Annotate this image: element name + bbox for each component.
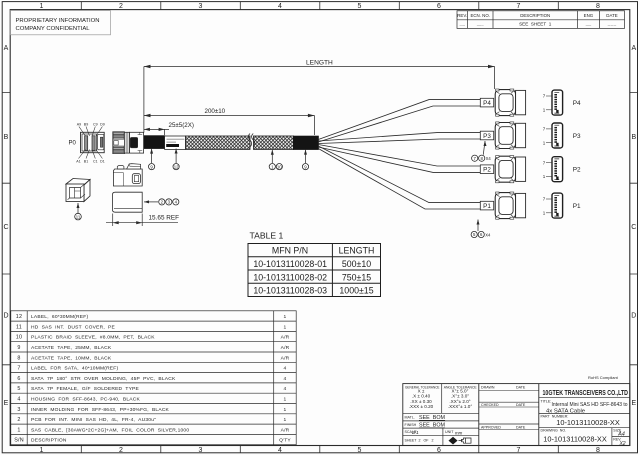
svg-text:SEE BOM: SEE BOM <box>419 423 446 429</box>
svg-text:.XXX ± 0.20: .XXX ± 0.20 <box>409 404 434 409</box>
svg-text:.XX°± 2.0°: .XX°± 2.0° <box>449 399 470 404</box>
svg-text:TABLE 1: TABLE 1 <box>250 231 284 241</box>
svg-text:7: 7 <box>17 366 20 372</box>
svg-text:DRAWN: DRAWN <box>481 385 495 389</box>
svg-text:P3: P3 <box>483 133 491 140</box>
svg-text:.X°± 3.0°: .X°± 3.0° <box>451 394 469 399</box>
svg-text:15.65 REF: 15.65 REF <box>149 215 180 222</box>
svg-text:REV.: REV. <box>457 13 467 18</box>
svg-text:200±10: 200±10 <box>205 108 226 115</box>
svg-text:--.--: --.-- <box>459 23 464 27</box>
svg-text:B: B <box>631 134 636 141</box>
svg-text:DESCRIPTION: DESCRIPTION <box>31 438 67 444</box>
svg-text:5: 5 <box>358 3 362 10</box>
svg-text:5: 5 <box>358 447 362 454</box>
svg-text:X4: X4 <box>485 233 491 238</box>
svg-text:5: 5 <box>17 386 20 392</box>
svg-text:X4: X4 <box>486 156 492 161</box>
svg-text:A/R: A/R <box>281 427 290 433</box>
svg-text:3: 3 <box>199 447 203 454</box>
svg-text:LENGTH: LENGTH <box>306 60 333 67</box>
svg-text:P1: P1 <box>483 203 491 210</box>
svg-text:10-1013110028-XX: 10-1013110028-XX <box>543 435 607 444</box>
svg-text:DATE: DATE <box>516 403 526 407</box>
svg-text:2: 2 <box>17 417 20 423</box>
svg-text:D: D <box>3 313 8 320</box>
svg-text:3: 3 <box>199 3 203 10</box>
svg-text:P4: P4 <box>483 100 491 107</box>
svg-text:CHECKED: CHECKED <box>481 403 499 407</box>
svg-text:INNER MOLDING FOR SFF-8643,: INNER MOLDING FOR SFF-8643, PP+30%FG, BL… <box>31 407 170 413</box>
svg-text:P4: P4 <box>573 100 581 107</box>
svg-text:PCB FOR INT. MINI SAS HD,: PCB FOR INT. MINI SAS HD, 4L, FR-4, AU30… <box>31 417 156 423</box>
svg-text:A: A <box>631 45 636 52</box>
svg-text:E: E <box>631 400 636 407</box>
svg-text:6: 6 <box>17 376 20 382</box>
svg-text:ACETATE TAPE, 10MM, BLACK: ACETATE TAPE, 10MM, BLACK <box>31 355 112 361</box>
svg-text:3: 3 <box>17 407 20 413</box>
svg-text:P2: P2 <box>573 167 581 174</box>
svg-text:SATA 7P FEMALE, G/F SOLDER: SATA 7P FEMALE, G/F SOLDERED TYPE <box>31 386 140 392</box>
svg-text:P2: P2 <box>483 167 491 174</box>
svg-text:LABEL, 60*30MM(REF): LABEL, 60*30MM(REF) <box>31 314 88 320</box>
svg-text:E: E <box>4 400 9 407</box>
svg-text:500±10: 500±10 <box>342 259 371 269</box>
svg-text:4: 4 <box>278 447 282 454</box>
svg-text:11: 11 <box>16 324 22 330</box>
svg-text:10-1013110028-03: 10-1013110028-03 <box>253 286 327 296</box>
svg-text:1: 1 <box>40 3 44 10</box>
svg-text:COMPANY CONFIDENTIAL: COMPANY CONFIDENTIAL <box>16 26 91 32</box>
svg-text:DATE: DATE <box>516 385 526 389</box>
svg-text:10-1013110028-01: 10-1013110028-01 <box>253 259 327 269</box>
svg-text:S/N: S/N <box>14 438 24 444</box>
svg-text:1: 1 <box>284 417 287 423</box>
svg-text:SHEET 2 OF 2: SHEET 2 OF 2 <box>405 439 434 443</box>
svg-text:RoHS Compliant: RoHS Compliant <box>588 375 619 380</box>
svg-text:4: 4 <box>17 397 20 403</box>
svg-text:-----: ----- <box>586 23 592 27</box>
svg-text:mm: mm <box>455 430 463 435</box>
svg-text:C9: C9 <box>93 123 98 127</box>
svg-text:APPROVED: APPROVED <box>481 425 501 429</box>
svg-text:--.--.--: --.--.-- <box>608 23 617 27</box>
svg-text:SATA 7P 180° STR OVER MOL: SATA 7P 180° STR OVER MOLDING, 45P PVC, … <box>31 376 176 382</box>
svg-text:7: 7 <box>517 447 521 454</box>
svg-text:B1: B1 <box>84 160 88 164</box>
svg-text:1: 1 <box>17 427 20 433</box>
svg-text:PROPRIETARY INFORMATION: PROPRIETARY INFORMATION <box>16 18 100 24</box>
svg-text:A9: A9 <box>77 123 81 127</box>
svg-text:9: 9 <box>17 345 20 351</box>
svg-text:8: 8 <box>596 3 600 10</box>
svg-text:750±15: 750±15 <box>342 272 371 282</box>
svg-text:10-1013110028-02: 10-1013110028-02 <box>253 272 327 282</box>
svg-text:8: 8 <box>596 447 600 454</box>
svg-text:11: 11 <box>76 214 81 219</box>
svg-text:4: 4 <box>278 3 282 10</box>
svg-text:A4: A4 <box>617 431 625 437</box>
svg-text:SEE BOM: SEE BOM <box>419 415 446 421</box>
svg-text:ACETATE TAPE, 25MM, BLACK: ACETATE TAPE, 25MM, BLACK <box>31 345 112 351</box>
svg-text:FINISH: FINISH <box>405 423 417 427</box>
svg-text:7: 7 <box>517 3 521 10</box>
svg-text:------: ------ <box>477 23 484 27</box>
svg-text:B: B <box>4 134 9 141</box>
svg-text:TITLE:: TITLE: <box>541 399 552 403</box>
svg-text:ENG: ENG <box>584 13 594 18</box>
svg-text:D1: D1 <box>100 160 105 164</box>
svg-text:SEE SHEET 1: SEE SHEET 1 <box>519 22 552 27</box>
svg-text:P3: P3 <box>573 133 581 140</box>
svg-text:D: D <box>631 313 636 320</box>
svg-text:HOUSING FOR SFF-8643, PC-94: HOUSING FOR SFF-8643, PC-940, BLACK <box>31 397 140 403</box>
svg-text:1: 1 <box>284 407 287 413</box>
svg-text:2: 2 <box>119 3 123 10</box>
svg-text:10: 10 <box>277 164 282 169</box>
svg-text:4: 4 <box>284 366 287 372</box>
svg-text:Internal Mini SAS HD SFF-8643: Internal Mini SAS HD SFF-8643 to <box>552 402 629 408</box>
svg-text:1: 1 <box>284 314 287 320</box>
svg-text:4: 4 <box>284 376 287 382</box>
svg-text:1000±15: 1000±15 <box>339 286 373 296</box>
svg-text:6: 6 <box>437 3 441 10</box>
svg-text:UNIT: UNIT <box>445 430 454 434</box>
svg-text:1: 1 <box>284 397 287 403</box>
svg-text:10-1013110028-XX: 10-1013110028-XX <box>556 418 620 427</box>
svg-text:ECN. NO.: ECN. NO. <box>470 13 490 18</box>
svg-text:LENGTH: LENGTH <box>339 246 375 256</box>
svg-text:D9: D9 <box>100 123 105 127</box>
svg-text:10GTEK TRANSCEIVERS CO.,LTD: 10GTEK TRANSCEIVERS CO.,LTD <box>543 388 629 397</box>
svg-text:C: C <box>631 224 636 231</box>
svg-text:2: 2 <box>119 447 123 454</box>
svg-text:DATE: DATE <box>516 425 526 429</box>
svg-text:.XXX°± 1.0°: .XXX°± 1.0° <box>448 404 472 409</box>
svg-text:MFN P/N: MFN P/N <box>272 246 308 256</box>
svg-text:8: 8 <box>17 355 20 361</box>
svg-text:MATL.: MATL. <box>405 415 415 419</box>
svg-text:C: C <box>3 224 8 231</box>
svg-text:P1: P1 <box>573 203 581 210</box>
svg-text:DESCRIPTION: DESCRIPTION <box>520 13 550 18</box>
svg-text:A/R: A/R <box>281 335 290 341</box>
svg-text:DATE: DATE <box>606 13 617 18</box>
svg-text:.X ± 0.40: .X ± 0.40 <box>412 394 431 399</box>
svg-text:X2: X2 <box>618 441 625 447</box>
svg-text:LABEL FOR SATA, 40*10MM(REF: LABEL FOR SATA, 40*10MM(REF) <box>31 366 118 372</box>
svg-text:Q'TY: Q'TY <box>279 438 291 444</box>
svg-text:12: 12 <box>174 164 179 169</box>
svg-text:B9: B9 <box>84 123 88 127</box>
svg-text:1: 1 <box>284 324 287 330</box>
svg-text:12: 12 <box>16 314 22 320</box>
svg-text:25±5(2X): 25±5(2X) <box>169 122 194 129</box>
svg-text:4x SATA Cable: 4x SATA Cable <box>546 409 586 415</box>
svg-text:P0: P0 <box>69 141 77 147</box>
svg-text:.XX ± 0.30: .XX ± 0.30 <box>410 399 432 404</box>
svg-text:6: 6 <box>437 447 441 454</box>
svg-text:2/1: 2/1 <box>411 430 419 436</box>
svg-text:HD SAS INT. DUST COVER, P: HD SAS INT. DUST COVER, PE <box>31 324 115 330</box>
svg-text:DRAWING NO.: DRAWING NO. <box>541 429 567 433</box>
svg-text:SAS CABLE, [30AWG*2C+2G]+AM,: SAS CABLE, [30AWG*2C+2G]+AM, FOIL COLOR … <box>31 427 189 433</box>
svg-text:A1: A1 <box>76 160 80 164</box>
svg-text:4: 4 <box>284 386 287 392</box>
svg-text:PLASTIC BRAID SLEEVE, #8.0M: PLASTIC BRAID SLEEVE, #8.0MM, PET, BLACK <box>31 335 155 341</box>
svg-text:A/R: A/R <box>281 355 290 361</box>
svg-text:A: A <box>4 45 9 52</box>
svg-text:10: 10 <box>16 335 22 341</box>
svg-text:1: 1 <box>40 447 44 454</box>
svg-text:A/R: A/R <box>281 345 290 351</box>
svg-text:C1: C1 <box>93 160 98 164</box>
